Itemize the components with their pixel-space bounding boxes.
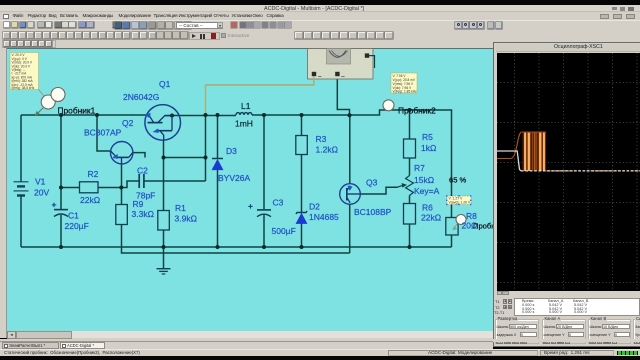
svg-text:3.3kΩ: 3.3kΩ xyxy=(132,209,154,219)
svg-text:22kΩ: 22kΩ xyxy=(80,195,100,205)
svg-text:15kΩ: 15kΩ xyxy=(414,175,434,185)
svg-text:R7: R7 xyxy=(414,163,425,173)
svg-text:220µF: 220µF xyxy=(65,221,89,231)
svg-text:V1: V1 xyxy=(35,177,46,187)
svg-text:1mH: 1mH xyxy=(235,119,253,129)
svg-text:D2: D2 xyxy=(309,202,320,212)
svg-text:R5: R5 xyxy=(422,132,433,142)
svg-text:V(freq): 1.85 kHz: V(freq): 1.85 kHz xyxy=(393,90,417,94)
svg-text:R9: R9 xyxy=(133,199,144,209)
svg-text:Q2: Q2 xyxy=(122,118,134,128)
svg-text:3.9kΩ: 3.9kΩ xyxy=(175,214,197,224)
svg-text:V(avg): 1.26 V: V(avg): 1.26 V xyxy=(449,201,471,205)
svg-text:R2: R2 xyxy=(88,169,99,179)
svg-text:1N4685: 1N4685 xyxy=(309,212,339,222)
svg-text:+: + xyxy=(52,200,57,210)
svg-text:BC108BP: BC108BP xyxy=(354,207,392,217)
svg-text:R1: R1 xyxy=(175,203,186,213)
svg-text:C1: C1 xyxy=(68,211,79,221)
svg-text:I(freq): 38.8 kHz: I(freq): 38.8 kHz xyxy=(12,86,35,90)
svg-text:65 %: 65 % xyxy=(449,176,467,185)
svg-text:R8: R8 xyxy=(466,211,477,221)
svg-text:Key=A: Key=A xyxy=(414,186,440,196)
svg-text:Пробник2: Пробник2 xyxy=(398,106,436,116)
svg-text:1kΩ: 1kΩ xyxy=(421,143,436,153)
svg-text:2N6042G: 2N6042G xyxy=(123,92,159,102)
svg-text:1.2kΩ: 1.2kΩ xyxy=(316,145,338,155)
svg-text:BYV26A: BYV26A xyxy=(218,173,250,183)
svg-text:500µF: 500µF xyxy=(272,226,296,236)
svg-text:R6: R6 xyxy=(422,203,433,213)
svg-text:22kΩ: 22kΩ xyxy=(421,213,441,223)
svg-text:20V: 20V xyxy=(34,188,49,198)
svg-text:L1: L1 xyxy=(241,101,251,111)
svg-text:R3: R3 xyxy=(316,134,327,144)
svg-text:Q1: Q1 xyxy=(159,79,171,89)
svg-text:+: + xyxy=(248,201,253,211)
svg-text:BC307AP: BC307AP xyxy=(84,128,122,138)
svg-text:Q3: Q3 xyxy=(366,178,378,188)
svg-text:Пробни: Пробни xyxy=(473,222,493,231)
svg-text:C2: C2 xyxy=(137,166,148,176)
svg-text:C3: C3 xyxy=(273,198,284,208)
svg-text:Пробник1: Пробник1 xyxy=(58,106,96,116)
svg-text:D3: D3 xyxy=(226,146,237,156)
